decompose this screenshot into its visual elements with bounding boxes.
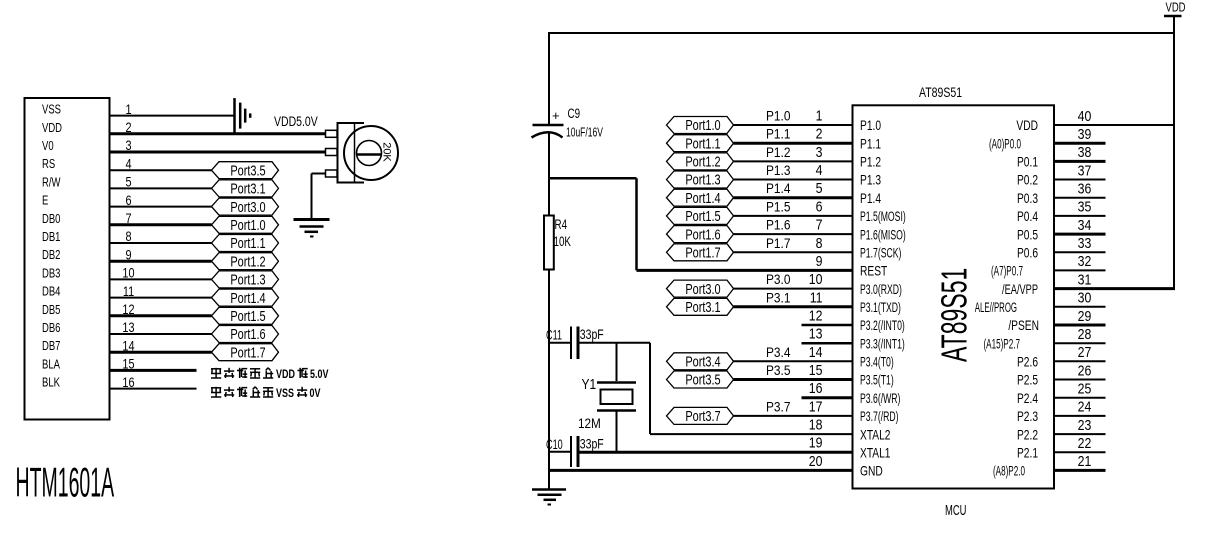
port label Port3.0 (to chip pin 10) [667, 280, 734, 297]
pin number 21 [1078, 453, 1092, 469]
svg-text:P2.6: P2.6 [1017, 354, 1038, 370]
pin number 35 [1078, 199, 1092, 215]
svg-text:P3.4: P3.4 [766, 344, 790, 360]
pin number 31 [1078, 271, 1092, 287]
svg-text:XTAL1: XTAL1 [860, 445, 891, 461]
svg-text:P3.4(T0): P3.4(T0) [860, 354, 894, 370]
net name P3.7 [766, 398, 790, 414]
svg-text:8: 8 [816, 235, 823, 251]
chip pin name P1.1 [860, 136, 881, 152]
pin number 19 [809, 435, 823, 451]
chip pin name P3.6(/WR) [860, 391, 901, 407]
svg-text:33: 33 [1078, 235, 1092, 251]
svg-text:+: + [552, 108, 560, 123]
net name P1.6 [766, 217, 790, 233]
wire chip pin 6 [734, 215, 853, 217]
chip pin name XTAL2 [860, 427, 891, 443]
wire stub chip pin 21 [1054, 469, 1106, 472]
LCD pin 10 DB3 wire and labels [42, 265, 212, 281]
svg-text:39: 39 [1078, 126, 1092, 142]
wire R4 to ground rail [548, 269, 550, 489]
svg-text:P3.7(/RD): P3.7(/RD) [860, 409, 899, 425]
svg-text:26: 26 [1078, 362, 1092, 378]
svg-text:9: 9 [816, 253, 823, 269]
svg-text:37: 37 [1078, 162, 1092, 178]
svg-text:Port1.3: Port1.3 [230, 271, 265, 288]
LCD pin 13 DB6 wire and labels [42, 320, 212, 336]
wire chip pin 4 [734, 179, 853, 181]
svg-text:DB3: DB3 [42, 267, 60, 281]
pin number 12 [809, 308, 823, 324]
wire vertical to C9 [548, 32, 550, 125]
wire XTAL2 pin 18 [650, 433, 853, 435]
wire chip pin 1 [734, 124, 853, 126]
LCD pin 9 DB2 wire and labels [42, 247, 212, 263]
pin number 15 [809, 362, 823, 378]
wire stub chip pin 38 [1054, 160, 1106, 163]
svg-text:P1.2: P1.2 [766, 144, 790, 160]
wire VDD top rail [549, 32, 1174, 34]
wire stub chip pin 30 [1054, 306, 1106, 308]
chip part name MCU [945, 502, 966, 519]
pin number 24 [1078, 399, 1092, 415]
pin number 11 [810, 289, 823, 305]
svg-text:P0.3: P0.3 [1017, 190, 1038, 206]
svg-text:36: 36 [1078, 181, 1092, 197]
svg-text:P1.7(SCK): P1.7(SCK) [860, 245, 901, 261]
pin number 13 [809, 326, 823, 342]
svg-text:(A8)P2.0: (A8)P2.0 [993, 465, 1025, 480]
LCD pin 16 BLK wire and labels [42, 375, 197, 391]
LCD pin 7 DB0 wire and labels [42, 211, 212, 227]
svg-text:P3.5: P3.5 [766, 362, 790, 378]
wire chip pin 17 [734, 415, 853, 417]
chip pin name (A8)P2.0 [993, 465, 1025, 480]
pin number 23 [1078, 417, 1092, 433]
svg-text:14: 14 [809, 344, 823, 360]
svg-text:Port3.1: Port3.1 [685, 298, 720, 315]
chip pin name VDD [1016, 118, 1038, 134]
chip pin name P1.2 [860, 154, 881, 170]
chip pin name (A15)P2.7 [983, 337, 1020, 352]
LCD pin 6 E wire and labels [42, 193, 212, 209]
svg-text:C9: C9 [568, 105, 581, 121]
port label Port1.5 (left) [212, 307, 279, 324]
chip pin name P3.1(TXD) [860, 300, 901, 316]
net name P1.2 [766, 144, 790, 160]
net name P1.1 [766, 126, 790, 142]
svg-text:1: 1 [816, 108, 823, 124]
svg-text:Port1.4: Port1.4 [230, 289, 265, 306]
net name P3.5 [766, 362, 790, 378]
chip pin name P3.3(/INT1) [860, 336, 905, 352]
svg-text:V0: V0 [42, 140, 54, 154]
pin number 40 [1078, 108, 1092, 124]
wire C9 to junction [548, 132, 550, 216]
svg-text:P2.5: P2.5 [1017, 372, 1038, 388]
wire C11 to XTAL2 corner [580, 343, 651, 434]
chip pin name P0.6 [1017, 245, 1038, 261]
wire chip pin 14 [734, 360, 853, 362]
svg-text:P2.2: P2.2 [1017, 427, 1038, 443]
port label Port1.1 (left) [212, 234, 279, 251]
chip pin name P0.1 [1017, 154, 1038, 170]
svg-text:5: 5 [816, 180, 823, 196]
power symbol VDD (top right) [1164, 1, 1186, 288]
wire stub chip pin 34 [1054, 233, 1106, 236]
svg-text:28: 28 [1078, 326, 1092, 342]
svg-text:DB4: DB4 [42, 285, 60, 299]
chip vertical label AT89S51 [936, 268, 975, 362]
svg-text:/EA/VPP: /EA/VPP [1002, 281, 1038, 298]
MCU U1 AT89S51 body [853, 105, 1055, 488]
svg-text:P0.2: P0.2 [1017, 172, 1038, 188]
svg-text:(A15)P2.7: (A15)P2.7 [983, 337, 1020, 352]
chip pin name P2.6 [1017, 354, 1038, 370]
pin number 10 [809, 271, 823, 287]
pin number 7 [816, 217, 823, 233]
svg-text:P2.4: P2.4 [1017, 390, 1038, 406]
ground (rotated) at VSS pin 1 [235, 98, 251, 133]
chip pin name P0.3 [1017, 190, 1038, 206]
svg-text:P0.1: P0.1 [1017, 154, 1038, 170]
pin number 20 [809, 453, 823, 469]
pin number 27 [1078, 344, 1092, 360]
svg-text:33pF: 33pF [580, 327, 604, 343]
svg-text:HTM1601A: HTM1601A [16, 459, 115, 505]
potentiometer RV 20K (LCD contrast) [326, 123, 399, 183]
LCD pin 15 BLA wire and labels [42, 356, 197, 372]
chip pin name P0.4 [1017, 209, 1038, 225]
svg-text:2: 2 [816, 126, 823, 142]
chip pin name P2.5 [1017, 372, 1038, 388]
pin number 29 [1078, 308, 1092, 324]
chip pin name P1.7(SCK) [860, 245, 901, 261]
LCD pin 14 DB7 wire and labels [42, 338, 212, 354]
chip pin name P2.2 [1017, 427, 1038, 443]
wire chip pin 31 /EA/VPP [1054, 287, 1175, 290]
wire stub chip pin 27 [1054, 360, 1106, 362]
svg-text:P3.5(T1): P3.5(T1) [860, 373, 894, 389]
svg-text:7: 7 [816, 217, 823, 233]
annotation: backlight cathode VSS or 0V (Chinese) [211, 387, 321, 400]
svg-text:10: 10 [809, 271, 823, 287]
svg-text:REST: REST [860, 263, 888, 279]
svg-text:/PSEN: /PSEN [1008, 318, 1039, 334]
wire stub chip pin 25 [1054, 397, 1106, 399]
pin number 33 [1078, 235, 1092, 251]
svg-text:Port1.5: Port1.5 [230, 307, 265, 324]
svg-text:11: 11 [810, 289, 823, 305]
svg-text:15: 15 [809, 362, 823, 378]
svg-text:24: 24 [1078, 399, 1092, 415]
wire junction to REST corner [549, 178, 637, 270]
capacitor C11 33pF [546, 326, 604, 359]
wire chip pin 40 VDD [1054, 124, 1175, 126]
svg-text:16: 16 [809, 380, 823, 396]
chip pin name /PSEN [1008, 318, 1039, 334]
pin number 28 [1078, 326, 1092, 342]
svg-text:P3.0: P3.0 [766, 271, 790, 287]
svg-text:AT89S51: AT89S51 [919, 85, 962, 101]
svg-text:P1.5: P1.5 [766, 198, 790, 214]
pin number 4 [816, 162, 823, 178]
chip pin name P1.6(MISO) [860, 227, 906, 243]
svg-text:6: 6 [816, 198, 823, 214]
pin number 25 [1078, 381, 1092, 397]
svg-text:P1.5(MOSI): P1.5(MOSI) [860, 209, 906, 225]
port label Port1.7 (to chip pin 8) [667, 244, 734, 261]
svg-text:P1.6(MISO): P1.6(MISO) [860, 227, 906, 243]
pin number 8 [816, 235, 823, 251]
svg-text:DB6: DB6 [42, 322, 60, 336]
chip pin name P3.7(/RD) [860, 409, 899, 425]
pin number 32 [1078, 253, 1092, 269]
capacitor C9 10uF/16V [532, 105, 604, 140]
wire XTAL1 pin 19 [580, 451, 853, 454]
port label Port3.7 (to chip pin 17) [667, 407, 734, 424]
svg-text:P2.1: P2.1 [1017, 445, 1038, 461]
svg-text:10K: 10K [554, 233, 571, 249]
chip pin name P3.5(T1) [860, 373, 894, 389]
wire stub chip pin 28 [1054, 342, 1106, 344]
svg-text:P3.3(/INT1): P3.3(/INT1) [860, 336, 905, 352]
net name P3.4 [766, 344, 790, 360]
svg-text:P1.4: P1.4 [860, 190, 881, 206]
port label Port1.7 (left) [212, 344, 279, 361]
svg-text:20: 20 [809, 453, 823, 469]
wire stub chip pin 32 [1054, 269, 1106, 271]
svg-text:C10: C10 [546, 436, 563, 453]
svg-text:DB5: DB5 [42, 304, 60, 318]
pin number 37 [1078, 162, 1092, 178]
svg-text:13: 13 [809, 326, 823, 342]
chip pin name P2.3 [1017, 409, 1038, 425]
wire chip pin 10 [734, 288, 853, 290]
chip pin name P1.0 [860, 118, 881, 134]
port label Port3.5 (left) [212, 162, 279, 179]
pin number 2 [816, 126, 823, 142]
svg-text:VDD: VDD [42, 122, 62, 136]
svg-text:P1.3: P1.3 [860, 172, 881, 188]
port label Port1.6 (left) [212, 325, 279, 342]
net name P1.5 [766, 198, 790, 214]
port label Port1.2 (left) [212, 253, 279, 270]
port label Port3.1 (left) [212, 180, 279, 197]
svg-text:17: 17 [809, 398, 823, 414]
wire chip pin 7 [734, 233, 853, 235]
svg-text:DB2: DB2 [42, 249, 60, 263]
svg-text:Port1.2: Port1.2 [685, 153, 720, 170]
svg-text:DB1: DB1 [42, 231, 60, 245]
svg-text:33pF: 33pF [580, 436, 604, 452]
wire chip pin 3 [734, 160, 853, 162]
ground under potentiometer [294, 174, 330, 237]
wire stub chip pin 26 [1054, 379, 1106, 381]
svg-text:4: 4 [816, 162, 823, 178]
port label Port1.4 (to chip pin 5) [667, 189, 734, 206]
svg-text:32: 32 [1078, 253, 1092, 269]
svg-text:VDD: VDD [1016, 118, 1038, 134]
ground (reset and crystal rail) [532, 490, 566, 505]
svg-text:VDD: VDD [1166, 1, 1186, 15]
svg-text:E: E [42, 194, 49, 208]
LCD pin 2 VDD wire and labels [42, 120, 326, 136]
wire stub chip pin 24 [1054, 415, 1106, 417]
svg-text:P1.4: P1.4 [766, 180, 790, 196]
pin number 34 [1078, 217, 1092, 233]
net name P3.0 [766, 271, 790, 287]
port label Port1.5 (to chip pin 6) [667, 207, 734, 224]
wire stub chip pin 16 [802, 396, 853, 399]
chip pin name P3.4(T0) [860, 354, 894, 370]
svg-text:BLK: BLK [42, 376, 60, 390]
svg-text:P0.5: P0.5 [1017, 227, 1038, 243]
port label Port1.1 (to chip pin 2) [667, 135, 734, 152]
wire stub chip pin 12 [802, 324, 853, 327]
svg-text:(A7)P0.7: (A7)P0.7 [991, 265, 1023, 280]
LCD pin 8 DB1 wire and labels [42, 229, 212, 245]
wire stub chip pin 39 [1054, 142, 1106, 145]
svg-text:XTAL2: XTAL2 [860, 427, 891, 443]
net label VDD5.0V [274, 114, 318, 130]
svg-text:21: 21 [1078, 453, 1092, 469]
port label Port1.4 (left) [212, 289, 279, 306]
net name P1.0 [766, 108, 790, 124]
svg-text:12M: 12M [578, 415, 601, 431]
wire stub chip pin 22 [1054, 451, 1106, 453]
svg-text:35: 35 [1078, 199, 1092, 215]
svg-text:P1.0: P1.0 [766, 108, 790, 124]
chip pin name P2.4 [1017, 390, 1038, 406]
port label Port3.1 (to chip pin 11) [667, 298, 734, 315]
svg-text:40: 40 [1078, 108, 1092, 124]
svg-text:VSS: VSS [276, 388, 294, 400]
chip pin name P2.1 [1017, 445, 1038, 461]
svg-text:25: 25 [1078, 381, 1092, 397]
svg-text:Port3.1: Port3.1 [230, 180, 265, 197]
chip pin name P0.5 [1017, 227, 1038, 243]
svg-text:P3.2(/INT0): P3.2(/INT0) [860, 318, 905, 334]
pin number 3 [816, 144, 823, 160]
chip pin name ALE//PROG [975, 301, 1017, 316]
pin number 17 [809, 398, 823, 414]
svg-text:Port3.5: Port3.5 [685, 371, 720, 388]
svg-text:Port1.0: Port1.0 [230, 216, 265, 233]
svg-text:23: 23 [1078, 417, 1092, 433]
svg-text:Port1.1: Port1.1 [230, 234, 265, 251]
LCD pin 11 DB4 wire and labels [42, 284, 212, 300]
svg-text:ALE//PROG: ALE//PROG [975, 301, 1017, 316]
svg-text:Port3.5: Port3.5 [230, 162, 265, 179]
svg-text:Port1.0: Port1.0 [685, 116, 720, 133]
pin number 16 [809, 380, 823, 396]
svg-text:Port1.6: Port1.6 [685, 226, 720, 243]
wire chip pin 5 [734, 196, 853, 199]
wire stub chip pin 35 [1054, 215, 1106, 217]
net name P1.3 [766, 162, 790, 178]
port label Port3.4 (to chip pin 14) [667, 353, 734, 370]
pin number 18 [809, 417, 823, 433]
pin number 22 [1078, 435, 1092, 451]
svg-text:Port1.5: Port1.5 [685, 207, 720, 224]
svg-text:P3.1: P3.1 [766, 289, 790, 305]
chip pin name GND [860, 463, 883, 479]
svg-text:P1.1: P1.1 [860, 136, 881, 152]
port label Port1.3 (to chip pin 4) [667, 171, 734, 188]
pin number 5 [816, 180, 823, 196]
capacitor C10 33pF [546, 436, 604, 467]
wire chip pin 11 [734, 305, 853, 308]
annotation: backlight anode VDD or 5.0V (Chinese) [211, 368, 329, 381]
svg-text:P1.3: P1.3 [766, 162, 790, 178]
svg-text:Port1.6: Port1.6 [230, 325, 265, 342]
title HTM1601A [16, 459, 115, 505]
wire GND pin 20 [549, 469, 853, 472]
svg-text:P0.4: P0.4 [1017, 209, 1038, 225]
svg-text:DB0: DB0 [42, 213, 60, 227]
pin number 9 [816, 253, 823, 269]
pin number 30 [1078, 290, 1092, 306]
svg-text:27: 27 [1078, 344, 1092, 360]
svg-text:Port1.2: Port1.2 [230, 253, 265, 270]
svg-text:Port3.4: Port3.4 [685, 353, 720, 370]
LCD pin 12 DB5 wire and labels [42, 302, 212, 318]
svg-text:Port3.0: Port3.0 [685, 280, 720, 297]
svg-text:P1.7: P1.7 [766, 235, 790, 251]
svg-text:(A0)P0.0: (A0)P0.0 [989, 137, 1021, 152]
svg-text:5.0V: 5.0V [310, 369, 329, 381]
svg-text:12: 12 [809, 308, 823, 324]
chip pin name P3.0(RXD) [860, 282, 902, 298]
pin number 36 [1078, 181, 1092, 197]
svg-text:Port3.0: Port3.0 [230, 198, 265, 215]
chip designator AT89S51 [919, 85, 962, 101]
chip pin name P1.4 [860, 190, 881, 206]
svg-text:29: 29 [1078, 308, 1092, 324]
svg-text:VDD: VDD [276, 369, 295, 381]
port label Port1.0 (to chip pin 1) [667, 116, 734, 133]
port label Port1.2 (to chip pin 3) [667, 153, 734, 170]
chip pin name XTAL1 [860, 445, 891, 461]
chip pin name P1.5(MOSI) [860, 209, 906, 225]
chip pin name (A0)P0.0 [989, 137, 1021, 152]
port label Port3.5 (to chip pin 15) [667, 371, 734, 388]
svg-text:34: 34 [1078, 217, 1092, 233]
svg-text:0V: 0V [310, 388, 321, 400]
svg-text:VDD5.0V: VDD5.0V [274, 114, 318, 130]
svg-text:30: 30 [1078, 290, 1092, 306]
svg-text:R4: R4 [555, 216, 568, 232]
svg-text:P2.3: P2.3 [1017, 409, 1038, 425]
svg-text:Y1: Y1 [582, 376, 597, 393]
wire stub chip pin 13 [802, 342, 853, 345]
svg-text:P1.2: P1.2 [860, 154, 881, 170]
svg-text:GND: GND [860, 463, 883, 479]
LCD module connector box (HTM1601A) [25, 98, 110, 420]
wire stub chip pin 36 [1054, 197, 1106, 199]
pin number 38 [1078, 144, 1092, 160]
svg-text:AT89S51: AT89S51 [936, 268, 975, 362]
svg-text:38: 38 [1078, 144, 1092, 160]
chip pin name /EA/VPP [1002, 281, 1038, 298]
svg-text:MCU: MCU [945, 502, 966, 519]
svg-text:19: 19 [809, 435, 823, 451]
svg-text:Port1.7: Port1.7 [230, 344, 265, 361]
net name P1.7 [766, 235, 790, 251]
svg-text:22: 22 [1078, 435, 1092, 451]
svg-text:Port1.7: Port1.7 [685, 244, 720, 261]
